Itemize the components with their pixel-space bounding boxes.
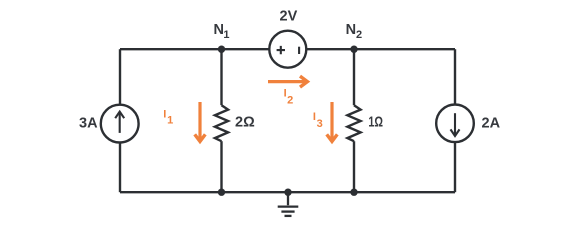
current arrow I1 (down) bbox=[195, 102, 206, 141]
svg-text:1Ω: 1Ω bbox=[368, 115, 383, 131]
node N1 junction dot bbox=[218, 46, 225, 53]
resistor 2Ω zigzag body bbox=[215, 105, 228, 141]
wire left branch upper bbox=[119, 49, 121, 104]
label current I3 bbox=[313, 111, 323, 130]
svg-text:I: I bbox=[163, 108, 166, 120]
resistor 1Ω zigzag body bbox=[347, 105, 360, 141]
ground bbox=[278, 192, 299, 216]
svg-text:N: N bbox=[346, 22, 356, 38]
wire left branch lower bbox=[119, 143, 121, 193]
wire bottom rail bbox=[120, 191, 455, 193]
current source 2A (down arrow) bbox=[436, 105, 474, 143]
junction dot bottom center (ground tap) bbox=[284, 189, 291, 196]
junction dot bottom left (2Ω to rail) bbox=[218, 189, 225, 196]
svg-text:1: 1 bbox=[223, 29, 229, 41]
svg-text:2A: 2A bbox=[482, 116, 501, 132]
wire node N2 to resistor top bbox=[353, 49, 355, 105]
node N2 junction dot bbox=[350, 46, 357, 53]
label node N2 bbox=[346, 22, 363, 41]
current arrow I3 (down) bbox=[327, 102, 338, 141]
svg-text:2V: 2V bbox=[280, 9, 298, 25]
label current I2 bbox=[284, 87, 294, 106]
svg-text:2: 2 bbox=[287, 95, 293, 107]
wire top-right (voltage source to right source) bbox=[306, 48, 455, 50]
junction dot bottom right (1Ω to rail) bbox=[350, 189, 357, 196]
svg-text:1: 1 bbox=[167, 115, 173, 127]
wire node N1 to resistor top bbox=[220, 49, 222, 105]
wire top-left (left source to voltage source) bbox=[120, 48, 269, 50]
svg-text:3: 3 bbox=[317, 118, 323, 130]
wire resistor 2Ω bottom to rail bbox=[220, 141, 222, 192]
current source 3A (up arrow) bbox=[101, 105, 139, 143]
wire right branch lower bbox=[454, 142, 456, 192]
wire right branch upper bbox=[454, 49, 456, 104]
label node N1 bbox=[214, 22, 230, 41]
svg-text:3A: 3A bbox=[79, 116, 98, 132]
wire resistor 1Ω bottom to rail bbox=[353, 141, 355, 192]
svg-text:I: I bbox=[313, 111, 316, 123]
svg-text:2Ω: 2Ω bbox=[235, 115, 255, 131]
label current I1 bbox=[163, 108, 173, 126]
voltage source 2V (+ left, - right) bbox=[269, 31, 306, 68]
svg-text:2: 2 bbox=[356, 29, 362, 41]
current arrow I2 (right) bbox=[268, 76, 307, 87]
